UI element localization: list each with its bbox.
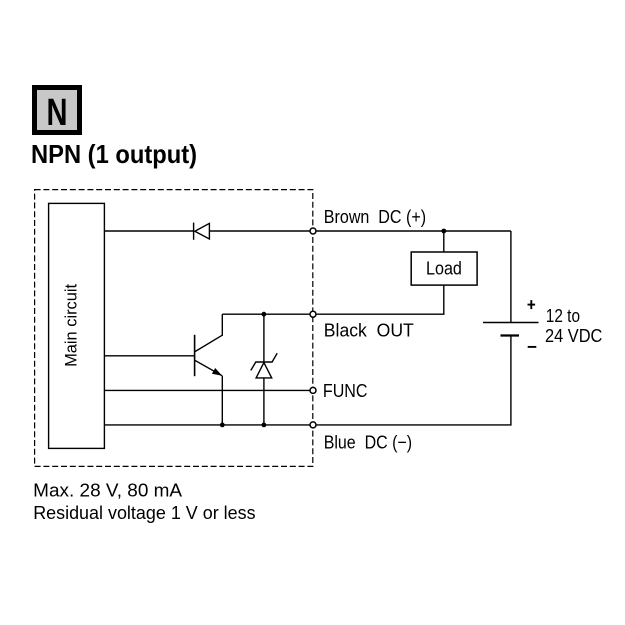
wire: diode D1 to brown terminal xyxy=(209,230,310,232)
diode D1 (reverse-polarity protection, cathode bar left) xyxy=(194,223,210,240)
transistor Q1 (NPN output transistor) xyxy=(104,314,222,425)
wire: collector output line to Black OUT terminal xyxy=(222,313,310,315)
battery V1 (12 to 24 VDC) xyxy=(483,323,539,336)
wire: brown terminal to supply + rail xyxy=(316,230,511,232)
svg-text:12 to: 12 to xyxy=(546,305,580,326)
svg-text:NPN (1 output): NPN (1 output) xyxy=(31,139,197,169)
icon N (inverter output type badge) xyxy=(35,88,80,135)
wire: battery - down and left to Blue terminal xyxy=(316,336,511,425)
svg-text:Brown DC (+): Brown DC (+) xyxy=(324,206,426,227)
terminal: Black OUT xyxy=(310,311,316,317)
wire: load bottom to Black OUT terminal xyxy=(316,285,444,314)
junction: emitter to 0V line xyxy=(220,423,225,428)
wire: 0V line from main circuit to Blue terminal xyxy=(104,424,310,426)
svg-text:Load: Load xyxy=(426,258,462,279)
svg-text:Residual voltage 1 V or less: Residual voltage 1 V or less xyxy=(33,502,255,523)
zener diode ZD1 (surge absorber) xyxy=(251,314,277,425)
terminal: Brown DC (+) xyxy=(310,228,316,234)
battery - polarity mark xyxy=(528,346,537,348)
battery value label 12 to 24 VDC xyxy=(545,305,602,346)
svg-text:FUNC: FUNC xyxy=(323,380,368,401)
battery + polarity mark xyxy=(528,300,536,309)
junction: load tap on brown rail xyxy=(441,229,446,234)
svg-text:N: N xyxy=(47,92,68,134)
load RL (external load box) xyxy=(411,252,477,285)
wire: main circuit to diode D1 anode-side (Brown line) xyxy=(104,230,193,232)
sensor enclosure (dashed boundary) xyxy=(35,190,313,467)
terminal: FUNC xyxy=(310,387,316,393)
svg-text:Blue DC (−): Blue DC (−) xyxy=(324,432,412,453)
svg-text:Black OUT: Black OUT xyxy=(324,320,414,341)
junction: zener to 0V line xyxy=(262,423,267,428)
main circuit block xyxy=(49,203,105,448)
svg-text:Main circuit: Main circuit xyxy=(62,284,81,367)
junction: zener top to OUT line xyxy=(262,312,267,317)
wire: brown rail down to load xyxy=(443,231,445,252)
wire: supply + rail down to battery xyxy=(510,231,512,323)
terminal: Blue DC (-) xyxy=(310,422,316,428)
svg-text:Max. 28 V, 80 mA: Max. 28 V, 80 mA xyxy=(33,479,183,500)
wire: FUNC line from main circuit to FUNC terminal xyxy=(104,389,310,391)
svg-text:24 VDC: 24 VDC xyxy=(545,325,602,346)
